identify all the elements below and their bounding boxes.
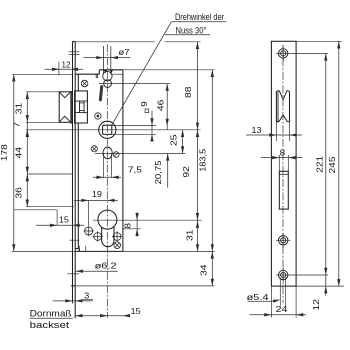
case bottom ext full bbox=[12, 250, 215, 252]
svg-text:ø6.2: ø6.2 bbox=[95, 262, 118, 271]
dim 31 left bbox=[26, 92, 28, 123]
31 top ext bbox=[26, 91, 59, 93]
screw boss G (circle-plus) bbox=[113, 233, 121, 241]
square symbol of sq9 bbox=[145, 109, 149, 113]
latch guide block bbox=[75, 91, 88, 123]
underline of 3 bbox=[82, 299, 93, 301]
screw hole tick lower bbox=[70, 239, 80, 241]
dim 7 left bbox=[26, 122, 28, 137]
case top edge front part bbox=[75, 73, 99, 75]
12 ext vertical at roller front bbox=[58, 62, 60, 76]
screw boss F (circle-plus) bbox=[94, 233, 102, 241]
svg-text:19: 19 bbox=[92, 190, 102, 199]
svg-text:88: 88 bbox=[184, 86, 193, 98]
dim 12 right bbox=[324, 286, 327, 293]
dim 245 bbox=[338, 41, 340, 286]
spring capsule (dark) bbox=[100, 87, 101, 100]
svg-text:15: 15 bbox=[59, 216, 69, 225]
svg-text:7,5: 7,5 bbox=[128, 165, 143, 174]
bottom ext right view bbox=[296, 285, 344, 287]
dim 36 bbox=[26, 174, 28, 207]
short line right of latch at case top level bbox=[111, 73, 123, 75]
cylinder axis line bbox=[93, 219, 202, 221]
dim ø5.4 bbox=[279, 278, 281, 306]
case top step bbox=[98, 70, 100, 74]
rivet symbol B (circle-dot) bbox=[95, 113, 101, 119]
rivet symbol D (circle-slash) bbox=[113, 152, 119, 158]
svg-text:backset: backset bbox=[30, 320, 70, 330]
bottom ext line left view bbox=[75, 285, 214, 287]
svg-text:9: 9 bbox=[140, 101, 149, 107]
dim ø7 bbox=[83, 57, 130, 59]
15 upper ext vertical bbox=[56, 210, 58, 226]
dim 178 bbox=[13, 74, 15, 251]
rivet symbol C (circle-x) bbox=[91, 146, 97, 152]
svg-text:Dornmaß: Dornmaß bbox=[30, 308, 72, 318]
svg-text:46: 46 bbox=[156, 99, 165, 111]
case rear edge bbox=[122, 70, 124, 252]
svg-text:34: 34 bbox=[200, 264, 209, 276]
latch tube / ø7 ext left bbox=[103, 46, 105, 74]
svg-text:ø5.4: ø5.4 bbox=[247, 293, 270, 302]
svg-text:31: 31 bbox=[186, 229, 195, 241]
svg-text:24: 24 bbox=[276, 305, 289, 314]
dim 20,75 bbox=[167, 153, 169, 187]
piston tick top bbox=[80, 102, 85, 104]
case bottom front step bbox=[75, 248, 78, 250]
dim 19 bbox=[74, 199, 118, 201]
dim 46 bbox=[166, 84, 168, 130]
screw hole tick bottom bbox=[67, 273, 79, 275]
9mm square spindle hole bbox=[103, 125, 112, 134]
dim 13 bbox=[275, 122, 277, 141]
dim 7,5 bbox=[93, 176, 121, 178]
top ext line b bbox=[165, 41, 201, 43]
svg-text:245: 245 bbox=[328, 156, 337, 174]
dim 92 bbox=[197, 130, 199, 220]
nut follower circle bbox=[99, 121, 116, 138]
dim 34 bbox=[211, 251, 213, 286]
31 bottom ext / roller bottom ext bbox=[26, 121, 59, 123]
svg-text:183,5: 183,5 bbox=[199, 148, 208, 171]
dim 44 bbox=[26, 130, 28, 174]
latch pin circle upper bbox=[103, 71, 112, 80]
svg-text:12: 12 bbox=[312, 299, 321, 311]
latch axis line bbox=[99, 83, 170, 85]
19 ext vertical bbox=[88, 200, 90, 225]
15 upper ref line bbox=[14, 209, 57, 211]
svg-text:Nuss 30°: Nuss 30° bbox=[176, 26, 207, 36]
dim backset / 15 bottom bbox=[75, 315, 130, 317]
svg-text:Drehwinkel der: Drehwinkel der bbox=[175, 12, 224, 22]
sq9 bottom ext bbox=[112, 133, 156, 135]
svg-text:92: 92 bbox=[182, 166, 191, 178]
lever pin oval bbox=[103, 147, 112, 159]
faceplate Stulp side: gray section bar at roller bbox=[71, 91, 73, 123]
roller V groove bottom bbox=[60, 116, 71, 122]
faceplate top edge bbox=[73, 41, 76, 43]
case top edge rear part bbox=[99, 69, 123, 71]
slot in faceplate bbox=[279, 171, 288, 209]
dim 12 (roller protrusion) bbox=[45, 68, 83, 70]
case top ext line bbox=[123, 69, 215, 71]
7,5 ext left bbox=[103, 154, 105, 178]
svg-text:36: 36 bbox=[14, 187, 23, 199]
piston right bbox=[83, 101, 85, 113]
36 bottom ext bbox=[26, 206, 74, 208]
svg-text:221: 221 bbox=[315, 155, 324, 173]
dim 24 bbox=[270, 286, 272, 317]
dim 88 bbox=[197, 42, 199, 130]
faceplate outline bbox=[271, 41, 296, 286]
piston tick bottom bbox=[80, 110, 85, 112]
svg-text:15: 15 bbox=[131, 307, 141, 316]
pin axis line bbox=[95, 152, 185, 154]
roller bolt bbox=[59, 92, 71, 123]
case front inner line lower bbox=[77, 123, 79, 249]
roller cutout front (M/W profile) bbox=[275, 92, 277, 123]
step vertical bbox=[78, 249, 80, 252]
guide block divider upper bbox=[75, 100, 88, 102]
svg-text:20,75: 20,75 bbox=[154, 160, 163, 185]
screw hole mid bbox=[279, 236, 288, 245]
dim sq9 bbox=[151, 111, 153, 141]
svg-text:8: 8 bbox=[124, 222, 133, 228]
piston left bbox=[79, 101, 81, 113]
screw hole bottom bbox=[279, 270, 288, 279]
screw hole tick top a bbox=[69, 51, 80, 53]
dim 3 (bottom) bbox=[53, 300, 93, 302]
top ext line (faceplate top) a bbox=[73, 41, 155, 43]
latch pin circle lower bbox=[104, 80, 112, 88]
euro profile cylinder hole bbox=[98, 210, 117, 229]
latch tube / ø7 ext right bbox=[110, 46, 112, 74]
7,5 ext right bbox=[111, 154, 113, 178]
case front inner line upper bbox=[77, 74, 79, 91]
rivet symbol H (circle-x) bbox=[114, 242, 121, 249]
leader line to nut square bbox=[112, 22, 172, 125]
vertical centerline right view bbox=[282, 45, 284, 303]
screw3 axis ext to 221/12 dims bbox=[276, 274, 328, 276]
vertical centerline left view bbox=[106, 44, 108, 318]
dim 8 (cylinder axis to hole axis) bbox=[136, 213, 138, 237]
rivet symbol A (circle-x) bbox=[81, 80, 88, 87]
svg-text:12: 12 bbox=[62, 60, 71, 69]
svg-text:178: 178 bbox=[0, 144, 9, 162]
44/36 ext at y174 bbox=[27, 173, 72, 175]
ø6.2 hole edge right bbox=[85, 246, 87, 252]
svg-text:7: 7 bbox=[12, 122, 21, 128]
latch clip filled triangles bbox=[104, 70, 108, 73]
screw hole tick top b bbox=[69, 53, 80, 55]
ø6.2 hole edge left bbox=[79, 246, 81, 252]
dim 25 bbox=[182, 130, 184, 154]
screw1 axis ext to 221 dim bbox=[276, 52, 328, 54]
sq9 top ext bbox=[112, 124, 156, 126]
svg-text:8: 8 bbox=[280, 148, 286, 157]
case bottom edge bbox=[75, 250, 123, 252]
screw boss E (circle-plus) bbox=[85, 227, 93, 235]
svg-text:3: 3 bbox=[84, 291, 89, 300]
svg-text:25: 25 bbox=[170, 134, 179, 146]
dim 15 upper bbox=[36, 224, 84, 226]
roller V groove top bbox=[60, 92, 71, 97]
guide block divider lower bbox=[75, 112, 88, 114]
svg-text:44: 44 bbox=[15, 146, 24, 158]
178 top ext bbox=[12, 73, 72, 75]
dim 8 bbox=[278, 155, 280, 171]
dim 221 bbox=[325, 53, 327, 295]
faceplate bottom edge bbox=[71, 285, 75, 287]
small tab below case top step bbox=[96, 74, 98, 77]
nut axis line bbox=[26, 129, 201, 131]
screw hole top bbox=[279, 49, 288, 58]
8-dim lower ext line bbox=[122, 228, 141, 230]
svg-text:ø7: ø7 bbox=[119, 48, 131, 57]
dim 31 right bbox=[197, 220, 199, 251]
svg-text:13: 13 bbox=[252, 126, 262, 135]
svg-text:31: 31 bbox=[14, 102, 23, 114]
dim 183,5 bbox=[211, 70, 213, 252]
top ext right view bbox=[296, 40, 342, 42]
roller inner edge double line bbox=[277, 92, 279, 122]
faceplate back / case front plate line bbox=[74, 42, 76, 319]
faceplate front line bbox=[72, 42, 74, 304]
